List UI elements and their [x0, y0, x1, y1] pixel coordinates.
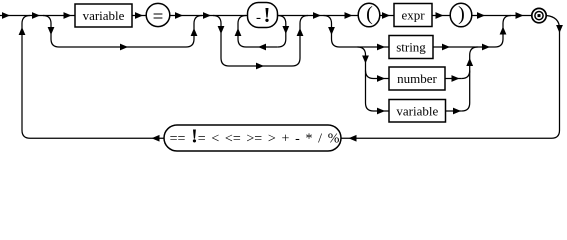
down arrowhead on outer loop right vertical [556, 25, 563, 33]
wire skip of -! (drop at x221) [213, 16, 229, 67]
wire alternatives drop to row 2 [324, 16, 340, 48]
entry arrowhead [2, 12, 10, 19]
arrowhead after number box [452, 75, 460, 82]
box variable (top) [75, 4, 132, 27]
arrowhead into ( oval [345, 12, 353, 19]
wire main rail segment 2 (variable box to = oval) [132, 15, 147, 17]
box string [389, 36, 433, 59]
wire bottom rail left segment [30, 137, 165, 139]
up arrowhead on row2 rise to main [500, 27, 507, 35]
leftward arrowhead on bottom rail after operator oval [152, 135, 160, 142]
wire row4 line before variable box [374, 110, 390, 112]
wire bypass of variable= (drop at x51) [43, 16, 59, 48]
down arrowhead on variable= bypass drop [48, 27, 55, 35]
wire row4 line after variable box [446, 110, 462, 112]
down arrowhead on alternatives drop [328, 27, 335, 35]
terminal oval ) [450, 3, 472, 27]
svg-text:-: - [256, 10, 261, 26]
arrowhead after expr box [436, 12, 444, 19]
up arrowhead on variable= bypass rise [191, 28, 198, 36]
arrowhead after variable(row4) box [453, 108, 461, 115]
wire outer loop rise (left vertical back to main rail) [22, 16, 30, 139]
up arrowhead on -! skip rise [297, 28, 304, 36]
wire main rail segment 5 (( oval to expr box) [380, 15, 395, 17]
svg-text:): ) [458, 3, 465, 25]
arrowhead after ) oval [477, 12, 485, 19]
svg-text:number: number [397, 71, 437, 86]
wire main rail segment 1 (entry to variable box) [0, 15, 75, 17]
svg-text:(: ( [366, 3, 373, 25]
up arrowhead on rows3-4 merge vertical [466, 58, 473, 66]
wire main rail segment 3 (= oval to -! oval) [170, 15, 249, 17]
arrowhead after variable box [135, 12, 143, 19]
svg-text:variable: variable [396, 104, 438, 119]
wire -! repeat loop horizontal (leftward) [246, 46, 278, 48]
terminal oval - ! [248, 3, 278, 28]
svg-text:expr: expr [401, 8, 425, 23]
svg-text:=: = [153, 7, 164, 28]
wire main rail segment 7 () oval to end terminal) [472, 15, 533, 17]
svg-text:variable: variable [83, 8, 125, 23]
arrowhead into end terminal [516, 12, 524, 19]
wire bypass of variable= rise (rejoin main) [186, 16, 202, 48]
down arrowhead on -! repeat drop [282, 26, 289, 34]
arrowhead into number box [377, 75, 385, 82]
leftward arrowhead on -! repeat loop [258, 44, 266, 51]
terminal oval = [146, 3, 170, 26]
wire row3 line after number box [445, 78, 462, 80]
wire -! repeat loop rise (rejoin before oval) [238, 16, 246, 48]
wire row4 rise joining row3/row2 merge vertical [462, 47, 478, 111]
wire alternatives drop row2 to row4 vertical [358, 47, 374, 111]
arrowhead into string box [377, 44, 385, 51]
wire -! repeat loop drop (right side) [278, 16, 286, 48]
wire alternatives branch to row 3 [366, 71, 374, 79]
arrowhead on -! skip line [256, 63, 264, 70]
arrowhead before -! skip branch [203, 12, 211, 19]
wire row3 line before number box [374, 78, 390, 80]
operator oval [164, 125, 341, 151]
wire skip of -! horizontal [229, 65, 292, 67]
terminal oval ( [358, 3, 380, 27]
end terminal inner circle [535, 12, 543, 20]
end terminal outer circle [532, 8, 546, 22]
leftward arrowhead on bottom rail before operator oval [349, 135, 357, 142]
arrowhead into expr box [382, 12, 390, 19]
svg-text:string: string [396, 40, 426, 55]
box expr [394, 4, 432, 27]
wire row2 line after string box and rise to main [433, 16, 511, 48]
arrowhead before alternatives branch [313, 12, 321, 19]
arrowhead after outer-loop rejoin [32, 12, 40, 19]
wire bottom rail right segment [342, 137, 552, 139]
down arrowhead on -! skip drop [218, 26, 225, 34]
wire outer loop drop (end terminal to right vertical) [546, 16, 559, 139]
box variable (row 4) [389, 100, 446, 123]
arrowhead after row merge on row2 [482, 44, 490, 51]
arrowhead after string box [442, 44, 450, 51]
wire bypass of variable= horizontal [59, 46, 186, 48]
arrowhead on variable= bypass [120, 44, 128, 51]
wire row3 rise to row2 [462, 71, 470, 79]
wire skip of -! rise (rejoin main) [292, 16, 308, 67]
down arrowhead on rows3-4 branch vertical [362, 56, 369, 64]
wire main rail segment 4 (-! oval to ( oval) [278, 15, 359, 17]
end terminal center dot [538, 14, 541, 17]
wire main rail segment 6 (expr box to ) oval) [432, 15, 451, 17]
wire row2 line before string box [340, 46, 390, 48]
up arrowhead on outer loop left vertical [19, 27, 26, 35]
arrowhead into variable(row4) box [377, 108, 385, 115]
arrowhead into variable box [64, 12, 72, 19]
svg-text:!: ! [264, 3, 271, 27]
arrowhead after = oval [175, 12, 183, 19]
up arrowhead on -! repeat rise [235, 28, 242, 36]
box number [389, 67, 445, 90]
